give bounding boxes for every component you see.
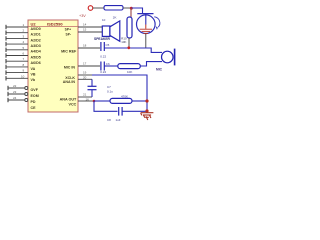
C7 labels xyxy=(107,85,113,94)
IC U2 body xyxy=(28,20,78,112)
right label MIC REF xyxy=(61,49,77,53)
left pin 7 A6/D6 xyxy=(6,57,41,65)
left pin 1 A0/D0 xyxy=(6,23,41,31)
microphone MIC circle xyxy=(162,51,174,63)
svg-text:SP-: SP- xyxy=(66,32,72,36)
svg-text:EOM: EOM xyxy=(31,94,39,98)
node dot B xyxy=(127,46,130,49)
svg-text:PD: PD xyxy=(31,100,36,104)
left pin 10 A9/D9 xyxy=(6,74,36,82)
svg-text:18: 18 xyxy=(83,44,87,48)
svg-text:ISD2590: ISD2590 xyxy=(47,22,63,27)
wire C5 to mic top xyxy=(105,48,163,52)
C9 labels xyxy=(107,118,121,122)
resistor R4 xyxy=(110,98,132,103)
svg-text:20: 20 xyxy=(83,76,87,80)
svg-text:MIC: MIC xyxy=(156,68,163,72)
svg-text:A0/D0: A0/D0 xyxy=(31,27,41,31)
wire R3 to mic bottom xyxy=(140,62,162,66)
left pin 6 A5/D5 xyxy=(6,52,41,60)
svg-text:17: 17 xyxy=(83,62,87,66)
node dot A xyxy=(130,7,133,10)
capacitor C9 plates xyxy=(119,107,122,116)
svg-text:10: 10 xyxy=(102,18,106,22)
bell stem red xyxy=(145,25,147,29)
right pin 17 MIC xyxy=(64,62,100,70)
svg-text:C7: C7 xyxy=(107,85,111,89)
svg-text:14: 14 xyxy=(83,23,87,27)
svg-text:19: 19 xyxy=(83,71,87,75)
speaker LS rect xyxy=(102,26,110,36)
svg-text:C5: C5 xyxy=(106,43,110,47)
terminal +3V xyxy=(79,6,93,18)
svg-text:1uF: 1uF xyxy=(116,118,121,122)
resistor R1 xyxy=(104,6,123,10)
wire node D to R4 xyxy=(94,100,110,102)
wire node to bell xyxy=(131,8,142,14)
wire node D down xyxy=(94,101,118,111)
left pin 8 A7/D7 xyxy=(6,63,36,71)
svg-text:A5/D5: A5/D5 xyxy=(31,55,41,59)
wire C6 to R3 xyxy=(105,65,118,67)
svg-text:XCLK: XCLK xyxy=(65,76,75,80)
svg-text:C8: C8 xyxy=(107,118,111,122)
left pin 3 A2/D2 xyxy=(6,34,41,42)
speaker LS cone xyxy=(110,21,120,41)
ground xyxy=(141,111,154,120)
svg-text:A2/D2: A2/D2 xyxy=(31,38,41,42)
left label CE xyxy=(31,106,37,110)
wire R2 to node B xyxy=(128,38,130,48)
R3 value 10K xyxy=(127,70,132,74)
node dot E xyxy=(145,99,148,102)
svg-text:470K: 470K xyxy=(121,94,128,98)
left pin 23 CE bubble xyxy=(8,90,39,98)
wire terminal to R1 xyxy=(93,7,104,9)
bell stem xyxy=(145,14,147,25)
svg-text:24: 24 xyxy=(13,96,17,100)
right label XCLK xyxy=(63,76,76,84)
svg-text:0.22: 0.22 xyxy=(100,70,106,74)
right pin 16 VCC xyxy=(69,97,94,106)
svg-text:0.22: 0.22 xyxy=(100,54,106,58)
bell arrow xyxy=(154,17,160,27)
left pin 5 A4/D4 xyxy=(6,46,41,54)
wire C9 to node F xyxy=(122,110,147,112)
resistor R2 vertical xyxy=(127,17,132,38)
svg-text:VA: VA xyxy=(31,67,36,71)
svg-text:23: 23 xyxy=(13,90,17,94)
svg-text:Vb: Vb xyxy=(31,78,36,82)
capacitor C5 plates xyxy=(101,42,104,51)
svg-text:VCC: VCC xyxy=(69,102,77,106)
left pin 22 OVF bubble xyxy=(8,84,39,92)
IC U2 title xyxy=(28,22,78,27)
node dot D xyxy=(93,100,96,103)
svg-text:21: 21 xyxy=(83,93,87,97)
right pin 20 stub xyxy=(78,76,92,80)
svg-text:10K: 10K xyxy=(121,40,126,44)
svg-text:VB: VB xyxy=(31,73,36,77)
svg-text:ANA OUT: ANA OUT xyxy=(60,98,77,102)
svg-text:2K: 2K xyxy=(113,15,117,19)
C6 labels xyxy=(100,62,110,74)
bell top bar xyxy=(137,13,153,15)
MIC label xyxy=(156,68,163,72)
svg-text:A6/D6: A6/D6 xyxy=(31,61,41,65)
svg-text:A4/D4: A4/D4 xyxy=(31,50,41,54)
capacitor C6 plates xyxy=(101,62,104,71)
svg-text:ANA IN: ANA IN xyxy=(63,80,76,84)
svg-text:MIC REF: MIC REF xyxy=(61,49,77,53)
svg-text:22: 22 xyxy=(13,84,17,88)
resistor R3 xyxy=(118,64,141,69)
bell B1 circle xyxy=(137,15,156,34)
wire red node down to R2 xyxy=(130,8,132,17)
svg-text:OVF: OVF xyxy=(31,88,39,92)
right pin 18 stub xyxy=(78,44,100,48)
wire R4 to node E xyxy=(132,100,147,102)
svg-text:A1/D1: A1/D1 xyxy=(31,33,41,37)
svg-text:U2: U2 xyxy=(31,22,37,27)
speaker labels xyxy=(94,15,116,40)
left pin 2 A1/D1 xyxy=(6,29,41,37)
R2 value 10K xyxy=(121,36,127,43)
right pin 14 SP+ xyxy=(65,23,103,32)
microphone MIC bar xyxy=(174,49,176,66)
svg-text:10: 10 xyxy=(21,74,25,78)
C5 labels xyxy=(100,43,109,59)
svg-text:16: 16 xyxy=(86,97,90,101)
capacitor C7 vertical xyxy=(88,79,97,97)
svg-text:+3V: +3V xyxy=(79,14,86,18)
svg-text:0.1u: 0.1u xyxy=(107,90,113,94)
left pin 9 A8/D8 xyxy=(6,69,36,77)
svg-text:MIC IN: MIC IN xyxy=(64,66,76,70)
left pin 24 PD bubble xyxy=(8,96,36,104)
svg-text:SP+: SP+ xyxy=(65,27,71,31)
left pin 4 A3/D3 xyxy=(6,40,41,48)
right pin 21 ANA OUT xyxy=(60,93,92,102)
svg-text:A3/D3: A3/D3 xyxy=(31,44,41,48)
svg-text:SPEAKER: SPEAKER xyxy=(94,37,111,41)
wire R1 to node xyxy=(123,7,131,9)
wire bell to mic net xyxy=(145,34,147,49)
R4 value 470K xyxy=(121,94,128,98)
right pin 19 AGC xyxy=(78,71,92,75)
svg-text:10K: 10K xyxy=(127,70,132,74)
node dot F xyxy=(145,109,148,112)
svg-text:15: 15 xyxy=(83,28,87,32)
bell internal ground xyxy=(140,29,152,33)
svg-text:CE: CE xyxy=(31,106,37,110)
wire ANA IN run xyxy=(92,75,147,111)
right pin 15 SP- xyxy=(66,28,103,37)
